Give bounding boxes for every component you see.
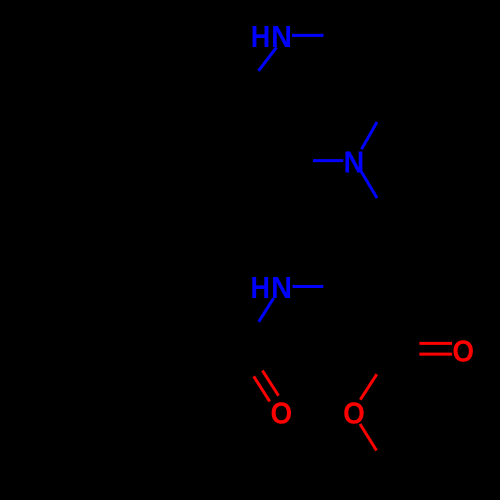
svg-text:O: O xyxy=(452,334,474,369)
svg-text:O: O xyxy=(271,396,293,431)
svg-text:O: O xyxy=(343,396,365,431)
svg-text:H: H xyxy=(251,21,270,55)
svg-text:N: N xyxy=(343,145,364,179)
svg-text:N: N xyxy=(271,271,292,305)
svg-text:H: H xyxy=(250,271,269,305)
svg-text:N: N xyxy=(271,20,292,54)
